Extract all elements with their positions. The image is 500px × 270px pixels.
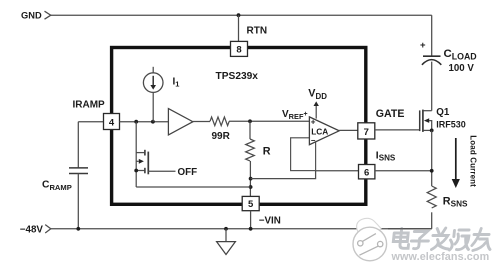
wire pin5 to rail (250, 211, 252, 229)
IC U1 TPS239x box (112, 48, 366, 205)
label CRAMP (42, 180, 72, 192)
svg-text:TPS239x: TPS239x (216, 71, 259, 82)
wire CLOAD to Q1 drain (431, 62, 433, 111)
node junction CRAMP/rail (76, 227, 80, 231)
ground (217, 229, 236, 255)
label 99R (212, 131, 231, 142)
svg-text:8: 8 (236, 44, 241, 55)
op-amp buffer A1 (168, 109, 193, 135)
resistor R (246, 121, 255, 161)
svg-text:−: − (311, 136, 316, 145)
wire IRAMP input (78, 121, 103, 123)
wire buffer to 99R (193, 121, 210, 123)
node junction gnd/rail (224, 227, 228, 231)
label RSNS (443, 195, 468, 208)
node junction A (134, 120, 138, 124)
label ISNS (376, 150, 396, 162)
-48V input chevron (45, 225, 51, 233)
label VREF (282, 109, 308, 121)
node junction Q1 source (430, 129, 434, 133)
svg-text:R: R (263, 145, 271, 157)
label RTN (247, 26, 268, 37)
block LCA feedback box (291, 138, 316, 171)
pin 4 (104, 114, 120, 130)
svg-text:IRAMP: IRAMP (73, 100, 106, 111)
svg-text:−48V: −48V (20, 225, 44, 236)
node junction pin5/rail (249, 227, 253, 231)
svg-text:100 V: 100 V (449, 63, 475, 74)
svg-text:Q1: Q1 (436, 107, 450, 118)
wire RTN riser (238, 15, 240, 41)
node junction E (249, 185, 253, 189)
resistor 99R (210, 117, 229, 126)
IC label TPS239x (216, 71, 259, 82)
pin 6 (359, 165, 375, 179)
wire 99R to LCA (229, 120, 309, 122)
wire OFF source to pin5 net (136, 186, 250, 188)
svg-text:−VIN: −VIN (259, 216, 281, 227)
wire GATE to Q1 (375, 129, 420, 131)
svg-text:Load Current: Load Current (468, 135, 477, 187)
label Q1 (436, 107, 450, 118)
watermark text elecfans chinese (392, 228, 492, 251)
capacitor CLOAD (420, 40, 441, 65)
label R (263, 145, 271, 157)
wire VDD arrow (314, 101, 319, 118)
wire RSNS to rail (431, 212, 433, 229)
wire LCA out to pin7 (339, 129, 358, 131)
label IRAMP (73, 100, 106, 111)
svg-text:7: 7 (364, 127, 369, 138)
wire R bottom chain (249, 161, 251, 196)
label CLOAD (444, 48, 477, 61)
label -VIN (259, 216, 281, 227)
wire -48V rail overlay segment (388, 228, 432, 230)
svg-text:99R: 99R (212, 131, 231, 142)
label OFF (178, 167, 198, 178)
label IRF530 (436, 119, 466, 129)
pin 5 (242, 196, 259, 210)
label Load Current (468, 135, 477, 187)
GND label (21, 10, 42, 20)
node junction GND/RTN (237, 13, 241, 17)
wire pin4 to buffer (120, 121, 169, 123)
svg-text:6: 6 (364, 167, 369, 178)
label GATE (376, 108, 405, 120)
wire pin6 to Q1 source node (375, 170, 432, 172)
svg-text:GATE: GATE (376, 108, 405, 120)
wire CRAMP riser top (77, 122, 79, 168)
svg-text:www.elecfans.com: www.elecfans.com (391, 251, 490, 263)
wire -48V rail (51, 228, 432, 230)
svg-text:GND: GND (21, 10, 42, 20)
svg-text:LCA: LCA (311, 126, 328, 136)
watermark url www.elecfans.com (391, 251, 490, 263)
label I1 (173, 76, 180, 88)
svg-text:OFF: OFF (178, 167, 198, 178)
resistor RSNS (427, 186, 436, 208)
op-amp LCA (309, 117, 339, 145)
node junction B (151, 120, 155, 124)
label -48V (20, 225, 44, 236)
capacitor CRAMP (69, 168, 88, 174)
node junction ISNS (430, 169, 434, 173)
wire CRAMP to rail (77, 174, 79, 229)
wire box to pin6 (316, 170, 359, 172)
wire R to box (251, 171, 316, 179)
svg-text:RTN: RTN (247, 26, 268, 37)
wire GND rail top (51, 14, 432, 16)
node junction D (249, 177, 253, 181)
node junction C (248, 119, 252, 123)
label 100 V (449, 63, 475, 74)
current source I1 (143, 67, 163, 93)
label VDD (308, 88, 327, 101)
transistor Q1 (420, 110, 432, 132)
pin 8 (231, 41, 248, 56)
wire GND to CLOAD drop (431, 15, 433, 56)
watermark logo disc (353, 218, 387, 260)
GND input chevron (45, 11, 51, 19)
node junction F (134, 169, 138, 173)
svg-text:IRF530: IRF530 (436, 119, 466, 129)
wire I1 to main (152, 92, 154, 121)
transistor OFF switch (136, 122, 148, 187)
svg-text:+: + (420, 40, 426, 51)
pin 7 (358, 123, 375, 139)
svg-text:4: 4 (109, 117, 115, 128)
wire Q1 source down (431, 130, 433, 186)
arrow load current (452, 138, 460, 188)
svg-text:5: 5 (248, 199, 254, 210)
wire OFF gate lead (148, 170, 175, 172)
